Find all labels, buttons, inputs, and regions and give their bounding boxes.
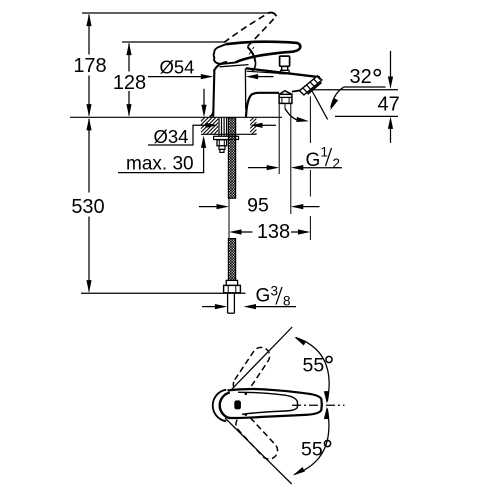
svg-text:2: 2 xyxy=(333,156,341,171)
G 1/2 dimension arrows xyxy=(248,167,267,169)
dimension 138 xyxy=(229,229,242,234)
stream direction line xyxy=(311,89,328,119)
dimension 128 top reference line xyxy=(122,41,226,43)
lower 55 deg arc xyxy=(294,409,329,475)
hose gap extension line xyxy=(228,198,230,238)
dimension 47 vertical with arrows xyxy=(390,51,392,78)
svg-text:178: 178 xyxy=(73,55,106,77)
flexible supply hose lower xyxy=(228,239,235,281)
dimension 178 vertical line with arrows xyxy=(88,15,90,116)
svg-text:138: 138 xyxy=(257,221,290,243)
outlet axis stub xyxy=(284,104,286,109)
threaded mounting stud xyxy=(219,118,227,136)
138 extension line xyxy=(309,97,311,241)
handle indicator slot xyxy=(234,400,241,409)
55 deg lower reference line xyxy=(225,418,292,484)
label G 3/8 with dimension xyxy=(202,306,215,308)
handle dashed position upper xyxy=(233,347,269,393)
hose end nut xyxy=(224,285,241,292)
32 deg leader arc with arrow xyxy=(331,87,344,107)
upper 55 deg arc xyxy=(296,338,329,402)
faucet body left edge xyxy=(213,69,214,117)
spout underside right xyxy=(292,90,301,91)
G 1/2 outlet nut xyxy=(279,91,292,95)
lever handle solid xyxy=(226,42,300,63)
svg-text:1: 1 xyxy=(321,145,329,160)
mounting deck surface line xyxy=(70,116,282,118)
lever handle raised dashed xyxy=(224,13,276,47)
svg-text:G: G xyxy=(306,150,321,171)
svg-text:max. 30: max. 30 xyxy=(126,154,194,175)
cartridge dome xyxy=(214,62,227,72)
handle cap outer arc xyxy=(213,390,226,422)
G 3/8 tube xyxy=(228,293,235,313)
flexible supply hose upper xyxy=(228,118,235,198)
svg-text:47: 47 xyxy=(378,93,400,115)
spout top edge xyxy=(246,68,320,77)
deck bottom line xyxy=(201,133,256,135)
svg-text:3: 3 xyxy=(271,284,279,299)
svg-text:8: 8 xyxy=(283,294,291,309)
handle top view solid xyxy=(228,389,322,418)
hose end collar xyxy=(226,280,237,285)
diverter knob xyxy=(280,56,290,66)
G 1/2 extension lines xyxy=(278,104,280,174)
dimension 95 xyxy=(199,206,217,208)
svg-text:32: 32 xyxy=(350,66,372,88)
aerator xyxy=(300,76,322,95)
handle centerline dash-dot xyxy=(292,404,345,406)
handle butt end xyxy=(214,44,236,64)
mounting bracket plate xyxy=(214,136,239,139)
body bottom right curve to spout underside xyxy=(246,93,279,117)
deck hatched block left xyxy=(201,118,218,135)
deck reference segment right for dim 47 xyxy=(335,115,398,117)
dimension 128 vertical line with arrows xyxy=(128,44,130,116)
svg-text:G: G xyxy=(256,286,271,307)
stud end xyxy=(219,146,225,150)
svg-text:Ø34: Ø34 xyxy=(154,126,189,147)
svg-text:530: 530 xyxy=(71,196,104,218)
mounting nut xyxy=(217,140,227,146)
svg-text:95: 95 xyxy=(247,195,269,217)
body base flare left xyxy=(210,109,214,117)
svg-text:55: 55 xyxy=(303,355,325,377)
dimension 530 bottom reference line xyxy=(81,292,246,294)
svg-text:128: 128 xyxy=(113,72,146,94)
55 deg upper reference line xyxy=(231,327,292,390)
cartridge axis dashed xyxy=(246,47,255,60)
outlet swivel arc with arrow xyxy=(285,109,298,121)
dimension 178 top reference line xyxy=(82,12,270,14)
handle neck front edge xyxy=(248,47,256,62)
svg-text:Ø54: Ø54 xyxy=(160,57,195,78)
svg-text:55: 55 xyxy=(301,439,323,461)
handle inner top line xyxy=(238,392,298,414)
handle cap inner arc xyxy=(220,393,230,419)
dimension 530 vertical line with arrows xyxy=(88,119,90,292)
handle dashed position lower xyxy=(236,415,278,459)
faucet body right edge xyxy=(244,68,246,109)
deck hatched block right xyxy=(250,118,256,135)
32 deg reference line xyxy=(344,86,386,88)
handle screw dots xyxy=(245,393,248,396)
